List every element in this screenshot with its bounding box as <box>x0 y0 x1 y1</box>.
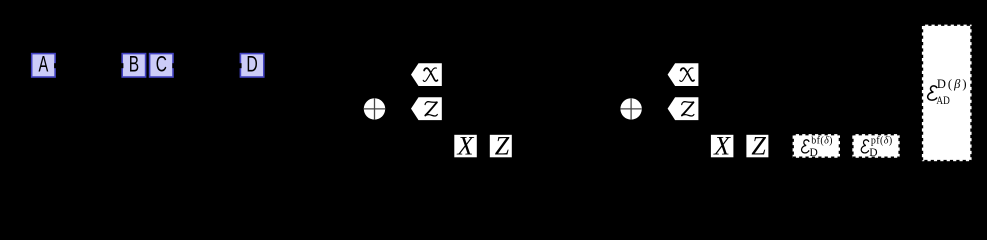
svg-text:X: X <box>713 131 731 160</box>
svg-text:pf(δ): pf(δ) <box>871 135 893 146</box>
dashed error box E_D^pf(delta) <box>852 134 899 159</box>
XOR gate 2 <box>620 98 641 119</box>
tag label script-X 1 <box>411 63 442 86</box>
svg-text:A: A <box>39 52 49 77</box>
dashed error box E_AD^D(beta) <box>922 25 972 162</box>
wire stub at B left edge <box>121 63 123 68</box>
svg-text:D: D <box>869 147 877 159</box>
gate box A <box>32 52 55 77</box>
pauli box X 2 <box>711 131 734 160</box>
tag label script-Z 2 <box>668 97 699 120</box>
wire stub at C right edge <box>172 63 174 68</box>
svg-text:Z: Z <box>751 131 766 160</box>
pauli box X 1 <box>454 131 477 160</box>
svg-text:D: D <box>810 147 818 159</box>
gate box C <box>150 52 173 77</box>
pauli box Z 2 <box>746 131 768 160</box>
svg-text:X: X <box>457 131 475 160</box>
dashed error box E_D^bf(delta) <box>793 134 840 159</box>
tag label script-Z 1 <box>411 97 442 120</box>
svg-text:bf(δ): bf(δ) <box>811 135 833 146</box>
svg-text:D(β): D(β) <box>937 77 969 91</box>
wire stub at D left edge <box>239 63 241 68</box>
gate box B <box>122 52 145 77</box>
svg-text:AD: AD <box>936 93 950 107</box>
pauli box Z 1 <box>490 131 512 160</box>
svg-text:Z: Z <box>495 131 510 160</box>
svg-text:C: C <box>156 52 167 77</box>
svg-text:D: D <box>246 52 257 77</box>
gate box D <box>240 52 263 77</box>
svg-text:B: B <box>129 52 139 77</box>
wire stub at A right edge <box>54 63 56 68</box>
XOR gate 1 <box>364 98 385 119</box>
tag label script-X 2 <box>668 63 699 86</box>
